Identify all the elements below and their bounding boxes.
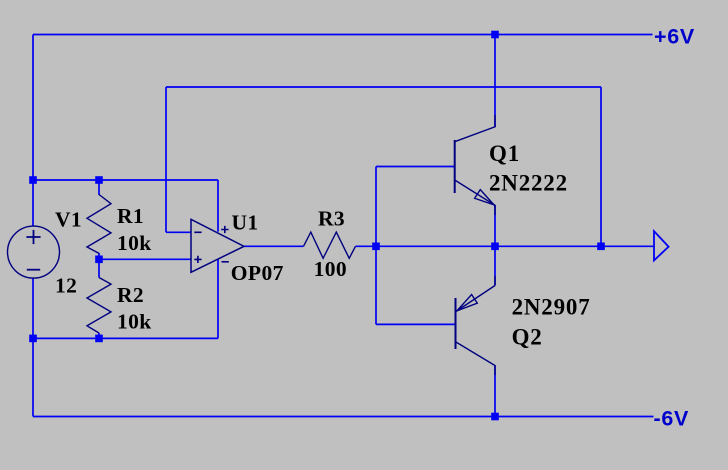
junction at feedback tap on output wire <box>597 243 605 251</box>
svg-text:10k: 10k <box>117 231 152 255</box>
junction at left of divider bottom wire <box>29 335 37 343</box>
wire R2 top lead <box>98 259 100 277</box>
junction at R2 bottom <box>95 335 103 343</box>
wire feedback right vertical down to output node <box>600 87 602 246</box>
svg-text:2N2907: 2N2907 <box>512 294 591 319</box>
wire R1 top lead <box>98 180 100 195</box>
resistor R2 zigzag <box>87 278 111 334</box>
wire feedback top horizontal <box>166 86 601 88</box>
wire V1 bottom lead to bottom node <box>32 278 34 338</box>
wire R2 bottom lead <box>98 333 100 338</box>
wire feedback horizontal into - input <box>166 231 191 233</box>
svg-text:Q1: Q1 <box>489 141 520 166</box>
voltage source V1 circle <box>8 226 60 278</box>
svg-text:Q2: Q2 <box>512 325 543 350</box>
op-amp V- power marker <box>222 261 229 263</box>
op-amp inverting input marker <box>194 231 201 233</box>
wire Q2 collector down to -6V rail <box>494 366 496 417</box>
wire op-amp V- pin <box>217 259 219 338</box>
junction on -6V rail at Q2 collector <box>491 413 499 421</box>
svg-text:V1: V1 <box>55 207 82 231</box>
junction at divider midpoint <box>95 256 103 264</box>
wire R1 bottom lead <box>98 253 100 259</box>
resistor R3 zigzag <box>304 232 356 258</box>
transistor Q1 collector diagonal <box>455 115 495 142</box>
svg-text:+6V: +6V <box>654 24 695 48</box>
wire bottom -6V rail <box>33 416 654 418</box>
wire left vertical from +6V rail to V1 top <box>32 35 34 227</box>
wire R3 right lead to base node <box>356 245 377 247</box>
transistor Q1 emitter arrow <box>475 190 494 205</box>
transistor Q2 emitter arrow <box>457 295 477 311</box>
wire bottom divider rail y=338.4 <box>33 337 218 339</box>
svg-text:R1: R1 <box>117 204 144 228</box>
wire top +6V rail <box>33 34 653 36</box>
junction at R3 right base node <box>372 243 380 251</box>
wire divider midpoint to op-amp + input <box>99 258 191 260</box>
wire output node horizontal to arrow <box>376 245 654 247</box>
svg-text:-6V: -6V <box>654 406 690 430</box>
wire Q1 emitter down to output node <box>494 205 496 246</box>
wire feedback vertical to - input <box>165 87 167 232</box>
transistor Q2 base bar <box>455 298 457 349</box>
transistor Q1 emitter diagonal <box>455 180 495 215</box>
op-amp U1 triangle <box>191 219 244 272</box>
svg-text:10k: 10k <box>117 310 152 334</box>
transistor Q2 emitter diagonal <box>456 276 495 312</box>
transistor Q1 base bar <box>454 140 456 193</box>
wire Q2 base horizontal <box>376 323 456 325</box>
junction at emitters output node <box>491 243 499 251</box>
svg-text:OP07: OP07 <box>231 261 284 285</box>
wire base node vertical up to Q1 base <box>375 167 377 247</box>
wire Q1 collector up to +6V rail <box>494 35 496 128</box>
svg-text:R3: R3 <box>318 207 345 231</box>
wire left vertical bottom node to -6V rail <box>32 338 34 416</box>
svg-text:100: 100 <box>314 257 347 281</box>
op-amp V+ power marker <box>221 226 228 233</box>
V1 minus marker <box>27 269 40 271</box>
output arrow <box>654 231 669 260</box>
svg-text:R2: R2 <box>117 283 144 307</box>
svg-text:2N2222: 2N2222 <box>489 171 568 196</box>
svg-text:12: 12 <box>55 274 77 298</box>
wire Q1 base horizontal <box>376 166 455 168</box>
op-amp non-inverting input marker <box>194 256 201 263</box>
wire base node vertical down to Q2 base <box>375 246 377 324</box>
svg-text:U1: U1 <box>232 210 259 234</box>
resistor R1 zigzag <box>87 195 111 254</box>
V1 plus marker <box>26 230 40 244</box>
transistor Q2 collector diagonal <box>456 342 495 375</box>
wire op-amp output to R3 <box>244 245 304 247</box>
junction at left of divider top wire <box>29 176 37 184</box>
wire Q2 emitter up to output node <box>494 246 496 285</box>
junction at R1 top <box>95 176 103 184</box>
wire top divider rail y=180 <box>33 179 218 181</box>
junction on +6V rail at Q1 collector <box>491 31 499 39</box>
wire op-amp V+ pin <box>217 180 219 232</box>
